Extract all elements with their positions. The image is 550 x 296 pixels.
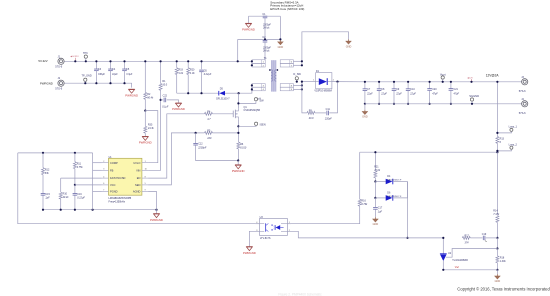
svg-text:SGGND: SGGND [469, 94, 479, 98]
wire C5 bottom lead [124, 71, 126, 84]
wire C4 top lead [110, 61, 112, 69]
svg-text:PWRGND: PWRGND [125, 93, 138, 97]
wire VCC input to VIN pin [148, 90, 161, 170]
svg-text:10.0: 10.0 [162, 84, 167, 87]
wire comp to opto collector [18, 153, 256, 224]
diode D4 [386, 179, 393, 185]
junction sense ground [237, 159, 239, 161]
test point SGGND [470, 98, 473, 101]
svg-text:PGND: PGND [110, 190, 118, 194]
label C15 [45, 193, 50, 200]
wire C20 bottom lead [429, 90, 431, 104]
wire input return rail J2 to PWRGND [64, 83, 131, 87]
junction C6 rail [200, 60, 202, 62]
capacitor C1 [263, 16, 268, 18]
label R21 [374, 166, 381, 172]
transformer T1 core [271, 60, 276, 91]
label R12 [45, 169, 50, 176]
wire C9 top lead [393, 82, 395, 89]
svg-text:C12: C12 [198, 143, 203, 146]
svg-text:Copyright © 2016, Texas Instru: Copyright © 2016, Texas Instruments Inco… [457, 287, 550, 292]
wire opto pin2 to TL431 net [287, 231, 443, 238]
junction C2 net rail [237, 60, 239, 62]
resistor R21 [374, 171, 377, 178]
junction C10 [407, 81, 409, 105]
svg-text:TP_GND: TP_GND [82, 75, 92, 78]
resistor R19 [175, 68, 178, 75]
capacitor C12 [193, 143, 198, 145]
wire R6 bottom lead [237, 149, 239, 161]
wire ISEN stem [238, 125, 256, 126]
svg-text:PWRGND: PWRGND [139, 141, 152, 145]
junction T1 primary bottom [251, 84, 253, 90]
svg-text:0.22µF: 0.22µF [77, 197, 85, 200]
wire C1 top net [249, 15, 281, 17]
capacitor C4 [108, 69, 113, 71]
capacitor C17 [373, 208, 378, 210]
junction R21 sense [374, 151, 376, 153]
label C1 [262, 13, 271, 29]
ground PWRGND C1 [242, 23, 255, 31]
svg-text:GND: GND [373, 223, 379, 226]
test point ISEN [255, 122, 258, 125]
wire TL431 ref [446, 249, 498, 258]
ground GND C2 net [277, 40, 283, 49]
net label 12V red [467, 76, 473, 82]
resistor R12 [42, 168, 45, 175]
wire IC left vertical [92, 153, 94, 210]
transformer T1 pin boxes primary [252, 60, 265, 91]
wire T1 sec pin8 stub [293, 84, 302, 86]
op-amp U1 pins [102, 161, 149, 194]
wire R21 bottom lead [374, 178, 376, 182]
svg-text:Freq=1350kHz: Freq=1350kHz [109, 200, 126, 203]
junction T1 secondary bottom [301, 84, 303, 90]
svg-text:◀5V-32V: ◀5V-32V [70, 55, 79, 58]
ground GND secondary [346, 39, 352, 48]
svg-text:5.76k: 5.76k [361, 203, 368, 206]
ground GND C17 [372, 217, 378, 226]
svg-text:22µF: 22µF [409, 93, 416, 96]
wire C3 top lead [95, 61, 97, 69]
svg-text:BAS21XM-7-F: BAS21XM-7-F [387, 178, 402, 181]
ground PWRGND C22 [172, 103, 185, 111]
svg-text:FB: FB [110, 168, 114, 172]
junction 12V label [470, 81, 472, 83]
junction Loop_2 [496, 150, 498, 152]
label C20 [432, 88, 438, 96]
wire C1 bottom lead [264, 18, 266, 40]
resistor R17 [462, 236, 470, 239]
wire opto pin1 stub [287, 223, 291, 225]
junction D4 anode [374, 180, 376, 182]
test point SW [254, 98, 257, 101]
wire ground rail stub [156, 210, 158, 214]
label C6 [204, 69, 212, 76]
svg-text:10: 10 [145, 169, 147, 171]
svg-text:VIN: VIN [136, 168, 140, 172]
label R20 [190, 69, 195, 76]
label R10 [63, 193, 70, 200]
svg-text:C17: C17 [378, 207, 383, 210]
wire C8 top lead [378, 82, 380, 89]
ground PWRGND controller [150, 214, 163, 222]
label C4 [112, 68, 118, 76]
wire TP6 stem [85, 58, 87, 61]
wire C5 top lead [124, 61, 126, 69]
junction TP6 [85, 60, 87, 62]
test point Loop_1 [510, 128, 513, 131]
svg-text:5V-32V: 5V-32V [38, 59, 47, 63]
connector J2 [58, 80, 64, 86]
svg-text:49.9: 49.9 [309, 117, 314, 120]
svg-text:PWRGND: PWRGND [150, 218, 163, 222]
junction Loop_1 [496, 132, 498, 134]
svg-text:TL431AIDBZR: TL431AIDBZR [452, 259, 468, 262]
junction R1 rail [160, 60, 162, 62]
wire UVLO to pin [145, 111, 158, 163]
wire R11 top lead [74, 153, 76, 162]
label J3 [519, 76, 526, 93]
svg-text:SW: SW [259, 98, 264, 102]
label R14 [493, 210, 500, 217]
wire diode cathodes down [407, 182, 409, 238]
svg-text:GND: GND [495, 280, 501, 283]
junction analog ground [42, 209, 158, 211]
label J4 [519, 98, 526, 115]
svg-text:0.22µF: 0.22µF [204, 73, 212, 76]
junction anode net left [442, 269, 444, 271]
capacitor C16 [73, 194, 78, 196]
svg-text:EN: EN [137, 176, 141, 180]
junction comp node [42, 152, 76, 154]
capacitor C22 [164, 98, 166, 103]
wire opto pin4 stub [255, 223, 259, 225]
label R19 [179, 69, 184, 76]
wire C17 bottom lead [374, 210, 376, 218]
test point TP_GND label [82, 75, 92, 78]
label R18 [500, 256, 507, 263]
test point Loop_1 label [509, 125, 518, 128]
junction TP_GND [84, 82, 86, 84]
wire output return rail [365, 103, 525, 105]
wire C15 bottom lead [42, 196, 44, 210]
svg-text:2kVdc: 2kVdc [262, 28, 270, 30]
test point D_SW [295, 77, 298, 80]
capacitor C21 polarized [449, 89, 454, 91]
junction snubber tap [336, 81, 338, 83]
wire C16 bottom lead [74, 196, 76, 210]
wire C2 bottom lead [264, 42, 266, 60]
junction D_SW tap [296, 81, 298, 83]
svg-text:1µF: 1µF [45, 197, 50, 200]
junction ref node [496, 247, 498, 249]
svg-text:PWRGND: PWRGND [243, 251, 256, 255]
junction C8 [378, 81, 380, 105]
label D4 [387, 175, 402, 181]
svg-text:D_SW: D_SW [293, 72, 301, 76]
junction C7 [364, 81, 366, 105]
junction sense node [496, 151, 498, 153]
wire C20 top lead [429, 82, 431, 89]
svg-text:4.75k: 4.75k [77, 166, 84, 169]
resistor R4 [204, 112, 212, 115]
svg-text:57S-6: 57S-6 [55, 87, 62, 91]
svg-text:C20: C20 [432, 88, 437, 91]
svg-text:◀12V: ◀12V [467, 76, 473, 79]
label D6 [387, 192, 402, 198]
svg-text:C16: C16 [77, 193, 82, 196]
wire AGND to ground rail [148, 192, 156, 210]
svg-text:57S-6: 57S-6 [55, 65, 62, 69]
wire VCC net [75, 184, 102, 186]
junction C12 tap [195, 132, 197, 134]
resistor R16 [358, 199, 361, 206]
capacitor C10 [406, 89, 411, 91]
wire D_SW stem [296, 80, 298, 82]
junction sense rail [496, 81, 498, 83]
wire R13 bottom [496, 143, 498, 152]
svg-text:VCC: VCC [110, 183, 116, 187]
label C7 [366, 88, 373, 96]
wire analog ground rail [43, 209, 157, 211]
wire sense divider top [496, 82, 498, 137]
svg-text:BAS21XM-7-F: BAS21XM-7-F [387, 195, 402, 198]
capacitor C5 [122, 69, 127, 71]
ground PWRGND input rail [125, 89, 138, 97]
svg-text:22µF: 22µF [380, 93, 387, 96]
svg-text:12V@2A: 12V@2A [486, 74, 500, 78]
wire R20 bottom lead [187, 75, 189, 94]
test point SW label [259, 98, 264, 102]
wire C21 bottom lead [450, 90, 452, 104]
test point TP6 circle [84, 55, 87, 58]
junction C22 tap [160, 99, 162, 101]
svg-text:2kVdc: 2kVdc [262, 51, 270, 53]
label C2 [262, 36, 271, 52]
wire R35 top lead [144, 111, 146, 127]
label U2 [448, 252, 468, 269]
junction C9 [393, 81, 395, 105]
wire C3 bottom lead [95, 71, 97, 84]
svg-text:PWRGND: PWRGND [172, 107, 185, 111]
wire to PWRGND [237, 161, 239, 165]
svg-text:GND: GND [278, 46, 284, 49]
wire T1 secondary bottom tie [301, 82, 303, 86]
svg-text:220pF: 220pF [324, 118, 332, 121]
wire R16 top lead [359, 152, 361, 199]
ground GND output [362, 110, 368, 119]
label T1 [255, 57, 267, 100]
junction D6 anode [374, 197, 376, 199]
wire TP_GND stem [84, 81, 86, 83]
wire R18 top lead [496, 249, 498, 256]
wire T1 secondary bottom pins tie [301, 85, 303, 89]
svg-text:PWRGND: PWRGND [40, 81, 53, 85]
resistor R10 [59, 192, 62, 199]
svg-text:FA/SYNC/SD: FA/SYNC/SD [110, 176, 126, 180]
wire D5 cathode to primary return [225, 92, 239, 94]
svg-text:330µF: 330µF [98, 73, 105, 76]
wire comp node horizontal [18, 152, 93, 154]
svg-text:1.00k: 1.00k [500, 260, 507, 263]
svg-text:22µF: 22µF [366, 93, 373, 96]
label R35 [147, 124, 155, 131]
label C12 [197, 143, 207, 150]
capacitor C9 [392, 89, 397, 91]
wire C12 top lead [195, 133, 197, 143]
svg-text:C11: C11 [326, 108, 331, 111]
wire T1 sec pin7 stub [293, 64, 302, 66]
capacitor C8 [377, 89, 382, 91]
svg-text:GND: GND [346, 45, 352, 48]
capacitor C7 [363, 89, 368, 91]
wire gnd stub [496, 270, 498, 275]
test point D_SW label [293, 72, 301, 76]
svg-text:PWRGND: PWRGND [242, 28, 255, 32]
svg-text:PWRGND: PWRGND [232, 169, 245, 173]
resistor R6 current sense [237, 142, 240, 149]
svg-text:2200pF: 2200pF [262, 47, 271, 49]
junction C5 [123, 60, 125, 84]
transformer T1 secondary winding [275, 70, 277, 81]
wire Loop_2 stem [497, 149, 511, 151]
label D1 [314, 70, 332, 92]
junction FB upper [496, 237, 498, 239]
svg-text:COMP: COMP [110, 161, 118, 165]
svg-text:LTV-817S: LTV-817S [260, 237, 271, 240]
wire FA/SD net [61, 177, 102, 179]
wire C2 net to +rail [237, 39, 239, 61]
wire snubber right [329, 82, 337, 113]
resistor R35 [144, 126, 147, 133]
label R11 [77, 162, 84, 169]
label C21 [454, 88, 460, 96]
junction C4 [109, 60, 111, 84]
svg-text:8: 8 [145, 176, 146, 178]
svg-text:1µF: 1µF [378, 210, 383, 213]
svg-text:40.2k: 40.2k [63, 196, 70, 199]
svg-text:Loop_1: Loop_1 [509, 125, 518, 128]
resistor R13 [496, 136, 499, 143]
resistor R9 [307, 111, 315, 114]
wire snubber left [302, 82, 307, 113]
svg-text:C21: C21 [454, 88, 459, 91]
wire FB stub [93, 169, 102, 171]
label R4 [207, 110, 211, 121]
svg-text:Vref: Vref [455, 266, 459, 269]
label C9 [395, 88, 402, 96]
wire R19 top lead [176, 61, 178, 67]
svg-text:UVLO: UVLO [133, 161, 140, 165]
junction TL431 cathode [442, 237, 444, 239]
wire D4 cathode lead [393, 181, 407, 183]
junction SW tap [237, 102, 239, 104]
capacitor C6 [199, 70, 204, 72]
resistor R18 [496, 256, 499, 263]
transistor Q1 [233, 108, 238, 120]
wire output +rail [365, 81, 525, 83]
svg-text:24.3k: 24.3k [147, 127, 155, 130]
svg-text:7.43k: 7.43k [493, 213, 500, 216]
svg-text:Figure 2. PMP4400 Schematic: Figure 2. PMP4400 Schematic [278, 293, 322, 296]
label R9 [309, 109, 314, 120]
capacitor C15 [41, 194, 46, 196]
wire R11 bottom lead [74, 169, 76, 185]
wire input +rail J1 to T1 [64, 60, 252, 62]
wire C6 top lead [201, 61, 203, 69]
note transformer specs [270, 1, 304, 11]
wire R18 bottom lead [496, 263, 498, 270]
junction Vout [442, 81, 444, 83]
wire R21 top lead [374, 152, 376, 170]
shunt regulator U2 TL431 [440, 254, 447, 261]
wire C10 top lead [407, 82, 409, 89]
label J2 [40, 77, 63, 90]
wire Loop_1 stem [497, 131, 511, 133]
svg-text:2200pF: 2200pF [262, 24, 271, 26]
net label Vin red flag [70, 55, 79, 61]
wire R16 to opto anode [291, 206, 360, 224]
svg-text:57S-6: 57S-6 [519, 111, 526, 115]
svg-text:57S-6: 57S-6 [519, 89, 526, 93]
label C19 [482, 233, 487, 236]
svg-text:AGND: AGND [133, 190, 141, 194]
wire R10 top lead [60, 178, 62, 192]
capacitor C20 polarized [427, 89, 432, 91]
wire sense node horizontal [360, 151, 498, 153]
svg-text:Loop_2: Loop_2 [509, 144, 518, 147]
junction T1 primary top [251, 60, 253, 66]
wire C19 to divider [486, 237, 498, 239]
svg-text:1.0k: 1.0k [190, 72, 195, 75]
wire T1 secondary top to GND [302, 32, 349, 66]
wire to ref node [496, 238, 498, 249]
wire D1 cathode to output rail [332, 81, 365, 83]
label C10 [409, 88, 416, 96]
wire PGND stub [93, 191, 102, 193]
junction R2 rail [144, 60, 146, 62]
svg-text:3: 3 [103, 169, 104, 171]
wire R1 top lead [160, 61, 162, 83]
svg-text:2: 2 [103, 161, 104, 163]
svg-text:2200pF: 2200pF [197, 146, 207, 149]
svg-text:47µF: 47µF [454, 93, 460, 96]
svg-text:DFLS1100-7: DFLS1100-7 [216, 97, 230, 100]
wire T1 sec pin9 stub [293, 88, 302, 90]
wire R17 to C19 [470, 237, 482, 239]
svg-text:EPC25 Core (N87/CF 139): EPC25 Core (N87/CF 139) [270, 7, 304, 11]
svg-text:SEN: SEN [135, 183, 140, 187]
test point TP_GND circle [84, 78, 87, 81]
test point SGGND label [469, 94, 479, 98]
test point ISEN label [260, 123, 266, 127]
junction snubber bottom [187, 92, 203, 94]
resistor R5 [204, 131, 212, 134]
junction cathodes fb wire [406, 237, 408, 239]
svg-text:374: 374 [465, 242, 470, 245]
label D5 [216, 88, 230, 101]
junction Vin label [74, 60, 76, 62]
junction Q1 source node [237, 125, 239, 134]
junction R19 rail [176, 60, 178, 62]
label R6 [240, 143, 247, 150]
transformer T1 pin boxes secondary [280, 60, 293, 91]
wire Q1 drain lead [237, 93, 239, 108]
transformer T1 phase dots [269, 69, 278, 71]
junction GND drop [279, 38, 281, 40]
wire C12 bottom to sense gnd [196, 145, 239, 160]
